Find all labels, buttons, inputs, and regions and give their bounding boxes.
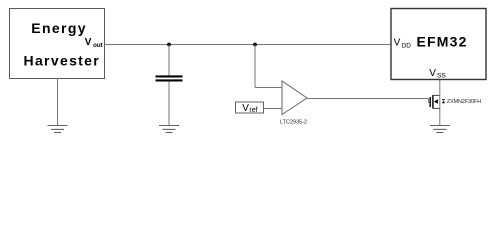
pin label Vout: [85, 37, 103, 49]
ground (MOSFET source): [430, 126, 450, 133]
junction node (comparator tap): [253, 43, 257, 47]
ground (capacitor): [159, 126, 179, 133]
svg-text:V: V: [429, 68, 436, 79]
box EFM32: [391, 9, 486, 80]
svg-text:LTC2935-2: LTC2935-2: [280, 119, 307, 125]
op-amp U1 comparator LTC2935-2: [280, 81, 307, 125]
box Energy Harvester: [10, 9, 105, 79]
wire Vref to comparator minus input: [264, 108, 283, 110]
wire VSS / drain / source vertical: [439, 80, 441, 126]
svg-text:V: V: [394, 38, 401, 49]
pin label VSS: [429, 68, 446, 80]
svg-text:SS: SS: [437, 73, 446, 80]
svg-text:ZXMN2F30FH: ZXMN2F30FH: [447, 99, 481, 105]
junction node (capacitor tap): [167, 43, 171, 47]
wire rail to capacitor: [168, 45, 170, 76]
svg-text:Harvester: Harvester: [24, 53, 101, 69]
svg-text:EFM32: EFM32: [417, 34, 468, 50]
wire EH box to ground: [57, 79, 59, 126]
svg-text:Energy: Energy: [31, 20, 87, 36]
svg-text:ref: ref: [249, 107, 257, 114]
box Vref: [236, 102, 264, 114]
svg-text:out: out: [93, 42, 103, 49]
capacitor C1: [156, 75, 183, 81]
wire Vout rail: [105, 44, 392, 46]
svg-text:V: V: [242, 103, 249, 114]
svg-text:DD: DD: [402, 42, 412, 49]
pin label VDD: [394, 38, 412, 50]
wire rail to comparator plus input: [255, 45, 282, 88]
wire comparator output to gate: [307, 99, 430, 103]
transistor Q1 ZXMN2F30FH: [430, 95, 481, 109]
svg-text:V: V: [85, 37, 92, 48]
wire capacitor to ground: [168, 82, 170, 126]
ground (Energy Harvester): [48, 126, 68, 133]
